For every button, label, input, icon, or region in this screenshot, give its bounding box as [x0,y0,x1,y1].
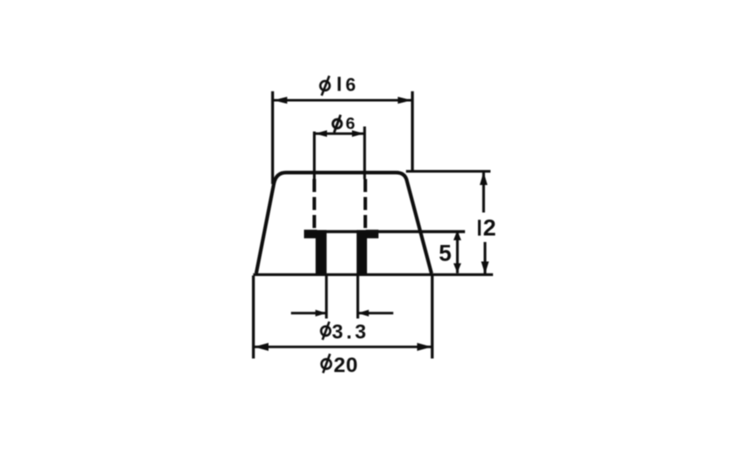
svg-text:5: 5 [439,240,452,266]
svg-text:6: 6 [346,74,356,95]
svg-text:3.3: 3.3 [332,321,369,343]
svg-text:20: 20 [334,354,359,377]
svg-text:2: 2 [483,215,496,241]
svg-text:6: 6 [346,114,355,133]
